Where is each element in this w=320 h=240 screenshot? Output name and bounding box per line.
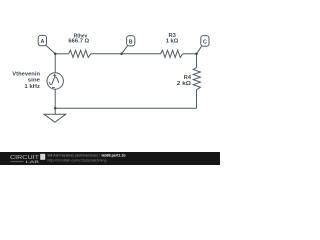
svg-text:http://circuitlab.com/c/2a3a3a: http://circuitlab.com/c/2a3a3afe5mmg bbox=[48, 158, 107, 162]
svg-text:sine: sine bbox=[28, 78, 41, 84]
source V1 circle bbox=[47, 73, 63, 89]
svg-text:A: A bbox=[40, 39, 44, 45]
minus sign bbox=[52, 87, 55, 89]
ground stem bbox=[54, 108, 56, 114]
wire left lower bbox=[54, 89, 56, 108]
watermark bar bbox=[0, 152, 220, 165]
logo square bbox=[40, 154, 45, 160]
node A flag box bbox=[38, 35, 46, 45]
svg-text:1 kΩ: 1 kΩ bbox=[166, 39, 179, 45]
resistor Rthev bbox=[69, 50, 91, 57]
junction dot A bbox=[54, 53, 57, 56]
svg-text:1 kHz: 1 kHz bbox=[24, 84, 40, 90]
svg-text:R4: R4 bbox=[184, 75, 192, 81]
node C flag box bbox=[201, 36, 209, 47]
svg-text:LAB: LAB bbox=[26, 159, 40, 164]
resistor R4 bbox=[193, 68, 200, 90]
node B leader bbox=[122, 46, 128, 54]
junction dot ground bbox=[54, 107, 57, 110]
wire Rthev-B bbox=[91, 53, 161, 55]
svg-text:Vthevenin: Vthevenin bbox=[12, 71, 40, 77]
junction dot C bbox=[195, 53, 198, 56]
ground symbol bbox=[44, 114, 66, 122]
logo underline bbox=[11, 160, 24, 162]
svg-text:666.7 Ω: 666.7 Ω bbox=[68, 39, 89, 45]
wire right bottom bbox=[196, 90, 198, 109]
wire left upper bbox=[54, 54, 56, 73]
wire bottom bbox=[55, 107, 196, 109]
svg-text:2 kΩ: 2 kΩ bbox=[177, 81, 192, 87]
junction dot B bbox=[120, 53, 123, 56]
svg-text:B: B bbox=[129, 39, 133, 45]
svg-text:Bill Ashmanskas (ashmanskas) /: Bill Ashmanskas (ashmanskas) / bbox=[48, 152, 101, 157]
wire top A-Rthev bbox=[55, 53, 68, 55]
svg-text:lab88.part1.1b: lab88.part1.1b bbox=[102, 152, 126, 157]
resistor R3 bbox=[161, 50, 183, 57]
wire right top bbox=[196, 54, 198, 68]
sine glyph bbox=[49, 77, 59, 85]
plus sign bbox=[53, 74, 56, 77]
svg-text:C: C bbox=[203, 40, 207, 46]
node A leader bbox=[46, 45, 55, 54]
node B flag box bbox=[127, 36, 135, 46]
wire R3-C corner bbox=[183, 53, 197, 55]
node C leader bbox=[197, 46, 202, 54]
